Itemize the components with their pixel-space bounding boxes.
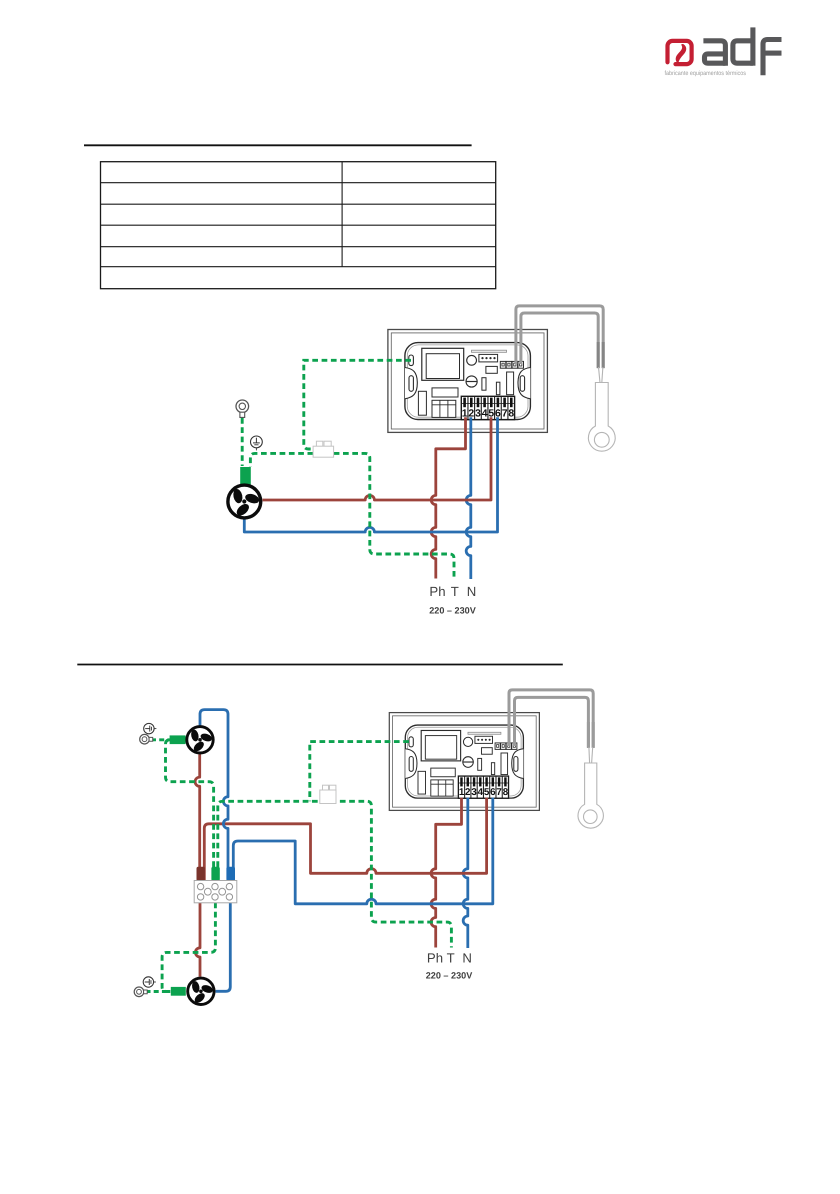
right mounting ear [518,368,530,399]
table row line 1 [101,182,496,184]
wire red: terminal 5 to fan M1 (diagram 1) [263,417,492,500]
table row line 5 [101,266,496,268]
green wire entry block at fan M1 [240,467,251,485]
ferrule green (diagram 2) [211,867,219,881]
ferrule blue (diagram 2) [226,867,235,881]
terminal strip TB1 pins 1-8 [461,396,514,419]
left mounting ear [405,368,417,399]
controller outer box [388,330,548,433]
sensor bare leads (diagram 2) [588,747,591,763]
wire green dashed: lug to fan M2 (diagram 2) [151,738,170,741]
fan motor M1 (diagram 1) [228,485,261,518]
wire green dashed: ground lug to fan (diagram 1) [241,418,244,466]
sensor cable inner conductor (diagram 2) [515,697,589,748]
wire green dashed: connector to fan (diagram 1) [250,453,313,467]
temperature probe ring lug PT1 (diagram 1) [588,383,615,452]
wire green dashed: junction block, through connector, to T (diagram 2) [218,801,452,947]
fan motor M3 (diagram 2 bottom) [188,978,214,1004]
component rect E [418,391,426,415]
ground symbol (diagram 1) [251,436,263,450]
terminal slots [463,398,466,408]
sensor terminal 4 [518,361,524,368]
logo letter a [703,41,725,66]
controller inner box line [391,333,544,429]
section 2 heading underline [77,664,563,666]
sensor cable inner conductor (diagram 1) [521,313,598,368]
wire green dashed: lug to fan M3 (diagram 2) [146,990,171,993]
wire green dashed: controller tab to junction (diagram 2) [310,742,409,802]
earth ring lug E2 (diagram 2) [140,734,150,744]
svg-text:N: N [467,584,477,599]
logo ADF red square [668,41,692,64]
logo ADF flame [676,44,687,64]
left ear slot [409,376,413,392]
component rect F [432,388,458,397]
svg-text:T: T [447,951,455,966]
button circle [467,355,477,365]
4-pin header J1 [479,354,498,362]
thermostat connector X1 (diagram 1) [316,441,322,446]
table row line 4 [101,246,496,248]
ground symbol (fan M2, diagram 2) [144,723,157,733]
LCD screen [426,354,459,379]
wire red phase: terminal 1 to Ph (diagram 2) [431,798,461,948]
wire red phase: terminal 1 to Ph (diagram 1) [431,417,465,578]
wire green dashed: junction block to fan M3 (diagram 2) [162,903,215,992]
sensor cable outer conductor (diagram 2) [509,690,593,748]
controller U1 (room thermostat control box, diagram 1) [388,330,548,433]
component rect A [482,378,486,391]
svg-text:220 – 230V: 220 – 230V [429,606,476,616]
wire blue neutral: terminal 2 to N (diagram 2) [463,798,468,948]
sensor cable outer conductor (diagram 1) [516,306,603,368]
svg-text:Ph: Ph [429,584,445,599]
svg-text:Ph: Ph [427,951,443,966]
table row line 2 [101,203,496,205]
section 1 heading underline [84,144,472,146]
sensor terminal 3 [512,361,518,368]
wire red: fan M2 to junction block (diagram 2) [195,754,200,867]
sensor bare leads (diagram 1) [599,367,601,383]
sensor terminal 1 [500,361,506,368]
svg-text:N: N [462,951,472,966]
sensor terminal 2 [506,361,512,368]
svg-text:8: 8 [508,408,514,419]
wire red: junction block to fan M3 (diagram 2) [195,903,200,977]
component rect C [507,372,514,395]
sensor cable dark end segment (diagram 1) [597,342,600,368]
controller U2 (diagram 2, reused) [389,713,539,811]
green wire entry block at fan M3 [171,987,186,996]
wire green dashed: junction block to fan M2 (diagram 2) [166,740,214,867]
wire blue: junction block to fan M3 (diagram 2) [216,903,231,992]
component rect D [486,366,497,373]
logo letter f [763,40,782,76]
device inner contour [407,345,528,417]
temperature probe ring lug PT2 (diagram 2) [578,763,603,828]
wire blue: fan M2 to junction block (diagram 2) [200,710,228,868]
table frame [101,162,496,289]
ground symbol (fan M3, diagram 2) [143,977,156,987]
adjust screw [466,376,477,387]
logo letter d [733,41,753,63]
wire green dashed: controller tab to thermostat connector (diagram 1) [304,360,411,449]
LCD display frame [422,348,464,380]
fan motor M2 (diagram 2 top) [187,727,213,753]
right ear slot [520,376,524,392]
wire red: junction block to terminal 5 (diagram 2) [204,798,486,881]
wire blue: terminal 6 to fan M1 (diagram 1) [244,417,497,532]
table row line 3 [101,224,496,226]
wire blue neutral: terminal 2 to N (diagram 1) [466,417,471,579]
svg-text:3: 3 [475,408,481,419]
table column divider [341,162,343,267]
svg-text:4: 4 [482,408,488,419]
earth ring lug E3 (diagram 2) [134,987,144,997]
junction terminal block X2 (diagram 2) [194,881,237,903]
relay block 3 cells [432,400,456,417]
svg-text:fabricante equipamentos térmic: fabricante equipamentos térmicos [665,70,747,77]
thermostat connector X2 (diagram 2) [323,785,329,790]
wire blue: junction block to terminal 6 (diagram 2) [233,798,493,904]
top slot [472,350,507,352]
terminal numbers 1-8 [462,408,515,419]
thermostat input tab [409,355,414,366]
svg-text:T: T [451,584,459,599]
wire green dashed: connector to T (diagram 1) [334,453,454,578]
component rect B [496,382,500,395]
device shell [405,343,531,420]
sensor cable dark end segment (diagram 2) [587,722,590,748]
green wire entry block at fan M2 [170,735,186,744]
svg-text:220 – 230V: 220 – 230V [426,971,473,981]
svg-text:7: 7 [502,408,508,419]
earth ring lug E1 (diagram 1) [236,400,249,413]
ferrule red (diagram 2) [197,867,205,881]
